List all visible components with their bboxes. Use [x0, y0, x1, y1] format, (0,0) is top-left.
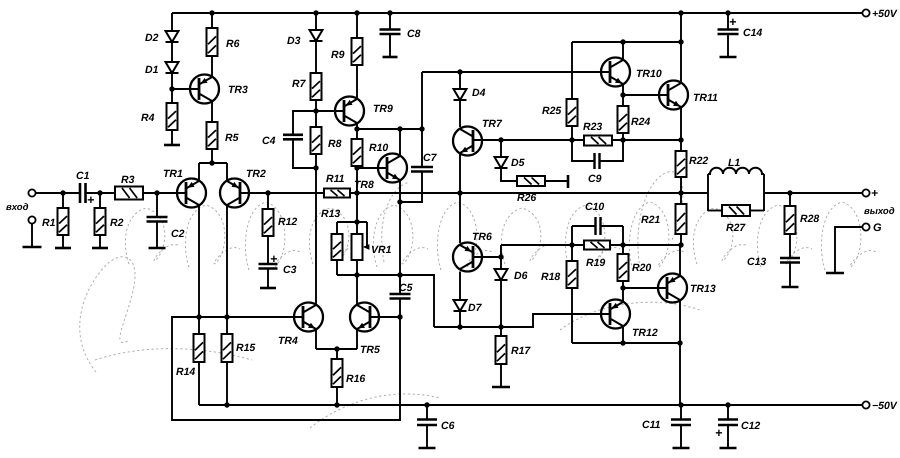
svg-text:R23: R23: [583, 121, 602, 133]
svg-text:TR12: TR12: [632, 327, 658, 339]
svg-text:D5: D5: [511, 157, 525, 169]
svg-text:R6: R6: [226, 38, 240, 50]
svg-text:R14: R14: [176, 366, 195, 378]
svg-text:D4: D4: [472, 87, 486, 99]
svg-text:−50V: −50V: [872, 400, 898, 412]
svg-text:R27: R27: [726, 222, 746, 234]
svg-text:C7: C7: [423, 152, 438, 164]
svg-text:R20: R20: [632, 262, 651, 274]
svg-text:D7: D7: [468, 302, 483, 314]
svg-text:TR11: TR11: [693, 92, 718, 104]
svg-text:выход: выход: [864, 206, 895, 217]
svg-text:D2: D2: [145, 32, 159, 44]
svg-text:TR4: TR4: [278, 335, 298, 347]
svg-text:C12: C12: [741, 420, 760, 432]
svg-text:TR2: TR2: [246, 168, 266, 180]
svg-text:R7: R7: [292, 78, 307, 90]
svg-text:TR3: TR3: [228, 84, 248, 96]
svg-text:TR13: TR13: [690, 283, 716, 295]
svg-text:D1: D1: [145, 64, 159, 76]
svg-text:R11: R11: [326, 173, 345, 185]
svg-text:TR6: TR6: [472, 231, 492, 243]
svg-text:C14: C14: [743, 27, 762, 39]
svg-text:C6: C6: [441, 420, 455, 432]
svg-text:+50V: +50V: [872, 8, 898, 20]
svg-text:+: +: [270, 252, 278, 266]
svg-text:R4: R4: [141, 112, 155, 124]
svg-text:C5: C5: [399, 282, 413, 294]
svg-text:R12: R12: [278, 216, 297, 228]
svg-text:C4: C4: [262, 135, 276, 147]
svg-text:TR5: TR5: [360, 344, 380, 356]
svg-text:+: +: [715, 426, 723, 440]
svg-text:R26: R26: [517, 192, 536, 204]
svg-text:R28: R28: [800, 213, 819, 225]
svg-text:TR1: TR1: [163, 168, 183, 180]
svg-text:R5: R5: [225, 132, 239, 144]
svg-text:G: G: [873, 222, 882, 234]
svg-text:TR9: TR9: [373, 103, 393, 115]
svg-text:R17: R17: [511, 345, 531, 357]
svg-text:R18: R18: [541, 271, 560, 283]
svg-text:+: +: [729, 15, 737, 29]
svg-text:R10: R10: [369, 142, 388, 154]
svg-text:R3: R3: [121, 174, 135, 186]
svg-text:+: +: [871, 186, 878, 200]
svg-text:R15: R15: [236, 342, 255, 354]
svg-text:R16: R16: [346, 373, 365, 385]
svg-text:TR8: TR8: [354, 179, 374, 191]
svg-text:R25: R25: [542, 105, 561, 117]
svg-text:R19: R19: [586, 257, 605, 269]
svg-text:TR7: TR7: [482, 118, 503, 130]
svg-text:R22: R22: [689, 155, 708, 167]
svg-text:R1: R1: [42, 217, 56, 229]
svg-text:C13: C13: [747, 256, 766, 268]
svg-text:R21: R21: [641, 214, 660, 226]
svg-text:R8: R8: [328, 138, 342, 150]
svg-text:C8: C8: [407, 28, 421, 40]
svg-text:R2: R2: [110, 217, 124, 229]
svg-text:C10: C10: [585, 201, 604, 213]
svg-text:D3: D3: [287, 35, 301, 47]
svg-text:C9: C9: [588, 173, 602, 185]
svg-text:D6: D6: [514, 270, 528, 282]
svg-text:C11: C11: [642, 419, 661, 431]
svg-text:R9: R9: [331, 49, 345, 61]
svg-text:L1: L1: [728, 157, 740, 169]
svg-text:R13: R13: [321, 208, 340, 220]
svg-text:VR1: VR1: [371, 244, 392, 256]
svg-text:C1: C1: [76, 170, 90, 182]
svg-text:вход: вход: [6, 202, 29, 213]
svg-text:+: +: [87, 193, 95, 207]
svg-text:TR10: TR10: [636, 68, 662, 80]
svg-text:C2: C2: [171, 228, 185, 240]
svg-text:C3: C3: [283, 264, 297, 276]
svg-text:R24: R24: [631, 116, 650, 128]
